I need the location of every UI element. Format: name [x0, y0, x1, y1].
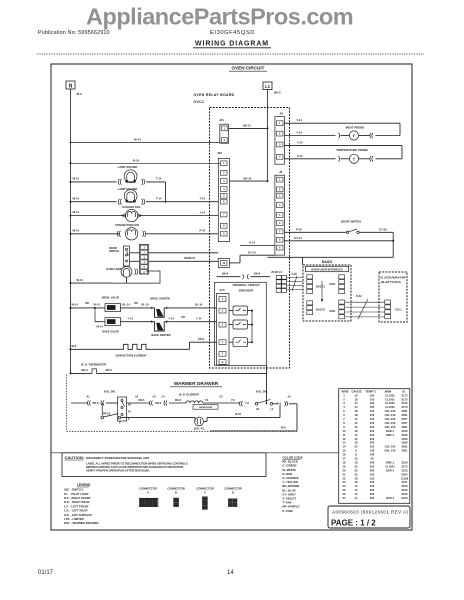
svg-text:3: 3	[279, 142, 281, 146]
svg-text:V-14: V-14	[297, 131, 303, 135]
connector BACC2	[307, 301, 313, 305]
svg-text:10: 10	[343, 429, 346, 433]
svg-text:GY-14: GY-14	[294, 236, 302, 240]
svg-text:4: 4	[222, 340, 224, 344]
svg-text:B1: B1	[128, 404, 132, 407]
wire door switch return	[392, 232, 394, 257]
caution box	[62, 453, 266, 477]
svg-text:W-8: W-8	[72, 344, 77, 348]
svg-text:Y-8: Y-8	[231, 399, 235, 402]
svg-text:CL1001: CL1001	[385, 464, 395, 468]
svg-text:BK-14: BK-14	[243, 124, 251, 128]
wire N-14 row	[71, 162, 221, 164]
svg-text:14: 14	[355, 401, 358, 405]
svg-text:BD: BD	[86, 302, 90, 305]
svg-text:BD: BD	[182, 316, 186, 319]
svg-text:THERMAL CIRCUIT: THERMAL CIRCUIT	[232, 283, 260, 287]
svg-text:12: 12	[355, 421, 358, 425]
svg-text:BAKE IGNITER: BAKE IGNITER	[151, 333, 170, 337]
thermal circuit breaker box	[215, 282, 267, 365]
svg-text:3561: 3561	[402, 425, 408, 429]
svg-text:240: 240	[370, 480, 375, 484]
svg-text:18: 18	[355, 429, 358, 433]
svg-text:105: 105	[370, 405, 375, 409]
svg-text:BK-8: BK-8	[222, 272, 229, 276]
svg-text:200: 200	[370, 488, 375, 492]
svg-text:A3: A3	[153, 395, 157, 398]
svg-text:GY-20: GY-20	[379, 227, 387, 231]
svg-text:8: 8	[355, 453, 357, 457]
svg-text:01/17: 01/17	[38, 570, 54, 576]
svg-text:W-8: W-8	[281, 427, 286, 430]
header dotted divider	[37, 53, 424, 55]
svg-text:3561: 3561	[402, 409, 408, 413]
svg-text:200: 200	[370, 433, 375, 437]
svg-text:3: 3	[343, 401, 345, 405]
svg-text:12: 12	[355, 437, 358, 441]
svg-text:18: 18	[355, 480, 358, 484]
svg-text:A00960603 (809126601 REV:A): A00960603 (809126601 REV:A)	[332, 510, 409, 515]
svg-text:4: 4	[279, 203, 281, 207]
svg-text:W-14: W-14	[73, 210, 80, 214]
svg-text:BR-8: BR-8	[93, 402, 99, 405]
svg-text:T-14: T-14	[156, 177, 162, 181]
svg-text:14: 14	[355, 488, 358, 492]
svg-text:PR-18: PR-18	[103, 413, 111, 416]
svg-text:240: 240	[370, 460, 375, 464]
svg-text:W-8: W-8	[277, 402, 282, 405]
svg-text:V-14: V-14	[297, 141, 303, 145]
svg-text:11129: 11129	[401, 476, 409, 480]
svg-text:21: 21	[343, 472, 346, 476]
svg-text:BAKE VALVE: BAKE VALVE	[102, 330, 119, 334]
svg-text:P: P	[119, 421, 121, 424]
svg-text:BROIL VALVE: BROIL VALVE	[102, 296, 120, 300]
svg-text:23: 23	[343, 480, 346, 484]
svg-text:11: 11	[343, 433, 346, 437]
svg-text:3: 3	[223, 179, 225, 183]
svg-text:PR-8: PR-8	[198, 337, 204, 341]
svg-text:150: 150	[370, 476, 375, 480]
svg-text:CXL-105: CXL-105	[385, 445, 396, 449]
svg-text:8: 8	[355, 449, 357, 453]
svg-text:AWM: AWM	[385, 389, 392, 393]
terminal L1	[263, 82, 272, 90]
svg-text:MEAT PROBE: MEAT PROBE	[346, 125, 365, 129]
svg-text:DISCONNECT POWER BEFORE SERVIC: DISCONNECT POWER BEFORE SERVICING UNIT.	[86, 456, 150, 460]
svg-text:7: 7	[223, 212, 225, 216]
svg-text:t°: t°	[353, 134, 356, 138]
svg-text:OR-8: OR-8	[106, 368, 113, 372]
wire gauge table	[339, 389, 410, 504]
svg-text:18: 18	[355, 413, 358, 417]
svg-text:C: C	[204, 491, 206, 495]
svg-text:TEMPERATURE PROBE: TEMPERATURE PROBE	[336, 148, 368, 152]
svg-text:E201: E201	[330, 309, 337, 313]
oven relay board OVC1 dashed enclosure	[210, 108, 290, 369]
svg-text:105: 105	[370, 397, 375, 401]
svg-text:6: 6	[343, 413, 345, 417]
svg-text:2: 2	[279, 187, 281, 191]
svg-text:9: 9	[279, 246, 281, 250]
svg-text:3129: 3129	[402, 433, 408, 437]
svg-text:P1: P1	[128, 411, 132, 414]
warmer pilot light	[195, 417, 204, 426]
svg-text:12: 12	[355, 425, 358, 429]
wire W-14 light row	[71, 282, 113, 284]
svg-text:19: 19	[343, 464, 346, 468]
svg-text:6: 6	[279, 221, 281, 225]
svg-text:3133: 3133	[402, 468, 408, 472]
svg-text:5: 5	[223, 194, 225, 198]
svg-text:D: D	[232, 491, 234, 495]
svg-text:14: 14	[355, 417, 358, 421]
svg-text:105: 105	[370, 445, 375, 449]
svg-text:OVEN RELAY BOARD: OVEN RELAY BOARD	[194, 93, 235, 97]
wire BK-8 disconnect	[217, 276, 241, 278]
svg-text:R-22: R-22	[356, 294, 362, 298]
terminal N	[66, 81, 75, 89]
svg-text:CONVECTION ELEMENT: CONVECTION ELEMENT	[115, 353, 147, 357]
svg-text:14: 14	[227, 570, 234, 576]
svg-text:W.D. - WARMER DRAWER: W.D. - WARMER DRAWER	[64, 521, 99, 525]
svg-text:105: 105	[370, 393, 375, 397]
svg-text:W-14: W-14	[97, 325, 104, 329]
svg-text:E251: E251	[330, 282, 337, 286]
svg-text:LABEL ALL WIRES PRIOR TO DISCO: LABEL ALL WIRES PRIOR TO DISCONNECTION W…	[86, 461, 189, 465]
svg-text:200: 200	[370, 496, 375, 500]
svg-text:t°: t°	[353, 157, 356, 161]
svg-text:CONNECTOR: CONNECTOR	[167, 487, 184, 491]
svg-text:P-14: P-14	[200, 229, 206, 233]
svg-text:THERMOSTAT: THERMOSTAT	[198, 406, 213, 409]
svg-text:T-14: T-14	[156, 196, 162, 200]
svg-text:18: 18	[343, 460, 346, 464]
svg-text:5254: 5254	[402, 472, 408, 476]
svg-text:WIRINGS ERRORS CAN CAUSE IMPRO: WIRINGS ERRORS CAN CAUSE IMPROPER AND DA…	[86, 465, 184, 469]
svg-text:150: 150	[370, 425, 375, 429]
svg-text:CONNECTOR: CONNECTOR	[139, 487, 156, 491]
svg-text:OR/W-14: OR/W-14	[184, 256, 196, 260]
svg-text:18: 18	[355, 460, 358, 464]
svg-text:8: 8	[223, 224, 225, 228]
door switch connector	[140, 244, 149, 274]
wire oven lamp loop	[112, 271, 160, 283]
svg-text:EI30GF45QSD: EI30GF45QSD	[210, 30, 255, 36]
svg-text:150: 150	[370, 421, 375, 425]
convection element	[71, 348, 121, 350]
wire harness to NASG	[287, 277, 303, 279]
breaker 2	[233, 320, 248, 329]
svg-text:J21: J21	[219, 118, 224, 122]
svg-text:CL1001: CL1001	[385, 397, 395, 401]
svg-text:CXL-150: CXL-150	[385, 421, 396, 425]
svg-text:3557: 3557	[402, 417, 408, 421]
svg-text:2: 2	[223, 171, 225, 175]
svg-text:18: 18	[355, 409, 358, 413]
svg-text:OVEN USER INTERFACE: OVEN USER INTERFACE	[311, 267, 343, 271]
svg-text:H2: H2	[256, 408, 260, 411]
svg-text:Y-8: Y-8	[245, 402, 249, 405]
svg-text:1: 1	[343, 393, 345, 397]
svg-text:BACC1: BACC1	[316, 284, 325, 288]
svg-text:CL1001: CL1001	[385, 405, 395, 409]
svg-text:24: 24	[343, 484, 346, 488]
svg-text:W-14: W-14	[94, 303, 101, 307]
svg-text:CONVECTION FAN: CONVECTION FAN	[115, 223, 139, 227]
svg-text:V-14: V-14	[297, 118, 303, 122]
svg-text:3173: 3173	[402, 405, 408, 409]
svg-text:3: 3	[223, 138, 225, 142]
svg-text:3561: 3561	[402, 445, 408, 449]
svg-text:WIRING DIAGRAM: WIRING DIAGRAM	[195, 41, 269, 48]
svg-text:40: 40	[371, 457, 374, 461]
svg-text:LAMP HOLDER: LAMP HOLDER	[118, 165, 138, 169]
svg-text:W. D. ELEMENT: W. D. ELEMENT	[179, 392, 200, 396]
svg-text:W-14: W-14	[73, 196, 80, 200]
svg-text:(SLAB TOUCH): (SLAB TOUCH)	[381, 280, 401, 284]
svg-text:SWITCH: SWITCH	[109, 249, 119, 253]
svg-text:12: 12	[343, 437, 346, 441]
svg-text:J6: J6	[280, 112, 284, 116]
svg-text:3173: 3173	[402, 397, 408, 401]
svg-text:Y-14: Y-14	[169, 317, 175, 321]
svg-text:20: 20	[355, 468, 358, 472]
svg-text:4: 4	[279, 155, 281, 159]
svg-text:15: 15	[343, 449, 346, 453]
svg-text:3557: 3557	[402, 421, 408, 425]
svg-text:V-14: V-14	[297, 154, 303, 158]
svg-text:8: 8	[343, 421, 345, 425]
svg-text:4: 4	[343, 405, 345, 409]
svg-text:A: A	[147, 491, 149, 495]
diagram outer border	[51, 64, 412, 530]
svg-text:W-14: W-14	[134, 137, 141, 141]
connector C2C1	[385, 300, 391, 304]
svg-text:W.D. SW.: W.D. SW.	[104, 390, 116, 394]
svg-text:COOLING FAN: COOLING FAN	[122, 205, 141, 209]
arrow BACC1-BACC2	[321, 281, 323, 302]
svg-text:3351: 3351	[402, 449, 408, 453]
svg-text:ALLEGRAMAX HMI: ALLEGRAMAX HMI	[380, 275, 405, 279]
warmer thermostat	[193, 405, 218, 410]
svg-text:22: 22	[355, 472, 358, 476]
svg-text:150: 150	[370, 409, 375, 413]
svg-text:Y-14: Y-14	[128, 317, 134, 321]
svg-text:CAUTION:: CAUTION:	[65, 455, 85, 460]
svg-text:2: 2	[222, 309, 224, 313]
svg-text:BK-8: BK-8	[254, 272, 261, 276]
svg-text:18: 18	[355, 441, 358, 445]
svg-text:Y-8: Y-8	[205, 399, 209, 402]
svg-text:BR-8: BR-8	[139, 399, 145, 402]
svg-text:200: 200	[370, 468, 375, 472]
svg-text:W-14: W-14	[72, 303, 79, 307]
svg-text:27: 27	[343, 496, 346, 500]
svg-text:5: 5	[279, 213, 281, 217]
svg-text:N: N	[69, 84, 73, 90]
svg-text:CXL-150: CXL-150	[385, 417, 396, 421]
svg-text:VERIFY PROPER OPERATION AFTER: VERIFY PROPER OPERATION AFTER SERVICING.	[86, 468, 150, 472]
svg-text:105: 105	[370, 464, 375, 468]
warmer drawer section dashed boundary	[66, 375, 68, 432]
wire harness R-22	[345, 301, 385, 303]
ALLEGRAMAX HMI box	[379, 272, 407, 322]
svg-text:1: 1	[279, 121, 281, 125]
svg-text:9: 9	[343, 425, 345, 429]
svg-text:TEMP.°C: TEMP.°C	[366, 389, 377, 393]
svg-text:G-14: G-14	[249, 241, 255, 245]
svg-text:W-18: W-18	[235, 413, 242, 416]
svg-text:A2: A2	[135, 395, 139, 398]
svg-text:200: 200	[370, 492, 375, 496]
svg-text:Y-14: Y-14	[200, 210, 206, 214]
svg-text:10: 10	[222, 261, 225, 265]
svg-text:7: 7	[279, 229, 281, 233]
wire V-14 J6 pin3	[285, 145, 403, 147]
svg-text:NASG: NASG	[322, 260, 333, 264]
svg-text:3613: 3613	[402, 492, 408, 496]
svg-text:BK-8: BK-8	[175, 399, 181, 402]
svg-text:5256: 5256	[402, 437, 408, 441]
svg-text:W.D. SW.: W.D. SW.	[256, 390, 268, 394]
svg-text:3173: 3173	[402, 464, 408, 468]
svg-text:A1: A1	[87, 395, 91, 398]
wire BK-14 J21	[229, 127, 268, 129]
svg-text:3613: 3613	[402, 484, 408, 488]
wire BK-14 J20	[229, 180, 267, 182]
svg-text:LEGEND: LEGEND	[77, 483, 91, 487]
svg-text:4: 4	[223, 187, 225, 191]
wire GY-14 pin10	[229, 262, 240, 264]
svg-text:22: 22	[343, 476, 346, 480]
svg-text:3561: 3561	[402, 413, 408, 417]
svg-text:150: 150	[370, 417, 375, 421]
svg-text:CXL-150: CXL-150	[385, 409, 396, 413]
svg-text:P--PINK: P--PINK	[282, 509, 292, 513]
svg-text:18: 18	[355, 476, 358, 480]
svg-text:1: 1	[222, 297, 224, 301]
svg-text:250: 250	[370, 441, 375, 445]
svg-text:W-14: W-14	[73, 177, 80, 181]
svg-text:W. D. THERMOSTAT: W. D. THERMOSTAT	[81, 363, 107, 367]
svg-text:200: 200	[370, 484, 375, 488]
svg-text:14: 14	[355, 405, 358, 409]
svg-text:250: 250	[370, 437, 375, 441]
svg-text:P-20: P-20	[296, 227, 302, 231]
warmer pilot light row	[101, 403, 103, 416]
bottom section divider	[51, 452, 339, 454]
svg-text:2: 2	[343, 397, 345, 401]
svg-text:C4: C4	[162, 395, 166, 398]
svg-text:KXL-140: KXL-140	[385, 449, 396, 453]
svg-text:18: 18	[355, 397, 358, 401]
svg-text:20: 20	[343, 468, 346, 472]
svg-text:BK-8: BK-8	[82, 368, 89, 372]
svg-text:9: 9	[223, 232, 225, 236]
svg-text:Y-14: Y-14	[196, 317, 202, 321]
wire G-14	[240, 245, 275, 247]
wire GY-14 row	[285, 240, 394, 242]
svg-text:5: 5	[222, 352, 224, 356]
svg-text:5: 5	[343, 409, 345, 413]
wire lamp1 to lamp2 junction	[165, 182, 167, 202]
svg-text:17: 17	[343, 457, 346, 461]
svg-text:BK-14: BK-14	[244, 176, 252, 180]
connector J20 pin 10	[218, 258, 229, 267]
svg-text:WIRE: WIRE	[342, 389, 349, 393]
wire left neutral rail	[70, 89, 72, 373]
svg-text:140: 140	[370, 453, 375, 457]
document number box	[328, 506, 410, 528]
svg-text:GY-14: GY-14	[248, 250, 256, 254]
svg-text:3071: 3071	[402, 480, 408, 484]
svg-text:OVEN CIRCUIT: OVEN CIRCUIT	[232, 66, 265, 71]
svg-text:CONNECTOR: CONNECTOR	[224, 487, 241, 491]
svg-text:13: 13	[343, 441, 346, 445]
svg-text:20: 20	[355, 464, 358, 468]
svg-text:25: 25	[343, 488, 346, 492]
connector BACC1	[307, 275, 313, 279]
svg-text:W-14: W-14	[77, 278, 84, 282]
svg-text:16: 16	[343, 453, 346, 457]
svg-text:UL: UL	[402, 389, 406, 393]
svg-text:6: 6	[222, 360, 224, 364]
svg-text:N-14: N-14	[133, 158, 140, 162]
svg-text:1: 1	[279, 178, 281, 182]
svg-text:14: 14	[355, 496, 358, 500]
wire warmer right return	[296, 404, 298, 431]
svg-text:J10: J10	[220, 288, 225, 292]
svg-text:1: 1	[223, 161, 225, 165]
svg-text:V-20: V-20	[292, 272, 298, 276]
svg-text:14: 14	[355, 484, 358, 488]
svg-text:W.D. P.L.: W.D. P.L.	[194, 427, 205, 431]
svg-text:3129: 3129	[402, 496, 408, 500]
svg-text:140: 140	[370, 449, 375, 453]
svg-text:OVEN LAMP: OVEN LAMP	[106, 267, 122, 271]
svg-text:BD: BD	[135, 302, 139, 305]
svg-text:T-14: T-14	[200, 197, 206, 201]
svg-text:2: 2	[279, 132, 281, 136]
svg-text:J20: J20	[217, 151, 222, 155]
svg-text:SGR-1: SGR-1	[386, 496, 395, 500]
svg-text:CONNECTOR: CONNECTOR	[196, 487, 213, 491]
svg-text:8: 8	[279, 238, 281, 242]
svg-text:SRK-1: SRK-1	[386, 433, 395, 437]
svg-text:105: 105	[370, 472, 375, 476]
svg-text:SRK-1: SRK-1	[386, 460, 395, 464]
svg-text:1: 1	[223, 126, 225, 130]
svg-text:3: 3	[279, 194, 281, 198]
svg-text:BREAKER: BREAKER	[239, 288, 255, 292]
svg-text:B: B	[175, 491, 177, 495]
warmer drawer element coil	[186, 401, 203, 403]
svg-text:CXL-140: CXL-140	[385, 413, 396, 417]
svg-text:BL-14: BL-14	[123, 303, 131, 307]
svg-text:F: F	[128, 418, 130, 421]
svg-text:12: 12	[355, 457, 358, 461]
svg-text:BROIL IGNITER: BROIL IGNITER	[150, 297, 170, 301]
svg-text:26: 26	[343, 492, 346, 496]
breaker 1	[233, 306, 248, 315]
svg-text:PAGE : 1 / 2: PAGE : 1 / 2	[331, 519, 376, 528]
svg-text:BL-14: BL-14	[195, 303, 203, 307]
svg-text:150: 150	[370, 413, 375, 417]
svg-text:CXL-150: CXL-150	[385, 425, 396, 429]
svg-text:105: 105	[370, 401, 375, 405]
svg-text:6: 6	[223, 200, 225, 204]
